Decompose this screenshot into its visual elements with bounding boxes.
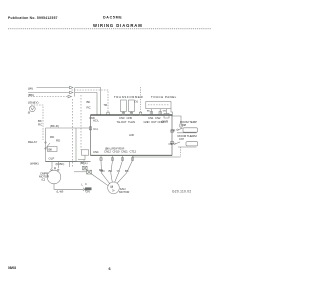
board top heavy edge	[91, 114, 173, 116]
room temp thermistor	[177, 129, 179, 131]
transformer leg connectors	[122, 112, 124, 115]
enclosure dashed vertical 2	[80, 95, 82, 150]
svg-text:CN10: CN10	[113, 150, 120, 154]
compressor ground wire	[54, 184, 84, 190]
svg-text:G20.110.02: G20.110.02	[172, 190, 191, 194]
svg-text:BK: BK	[147, 111, 150, 113]
svg-text:WIRING DIAGRAM: WIRING DIAGRAM	[93, 23, 143, 28]
relay box	[46, 128, 77, 162]
board bottom edge darker	[91, 154, 173, 156]
svg-text:MOTOR: MOTOR	[119, 190, 129, 194]
svg-text:RC: RC	[99, 168, 103, 172]
transformer symbol	[121, 100, 127, 112]
header dashed rule	[8, 28, 211, 30]
svg-text:(W): (W)	[28, 87, 33, 91]
svg-text:08/08: 08/08	[8, 266, 16, 270]
wire line 2	[28, 92, 70, 94]
svg-text:(L-W): (L-W)	[57, 189, 64, 193]
wire RC to compressor area	[74, 171, 87, 173]
sensor return wire dashed drop	[180, 147, 182, 157]
connector CN4 below board	[82, 150, 89, 155]
connector GN/B	[166, 109, 168, 114]
connector block link	[74, 88, 76, 97]
svg-text:OLP: OLP	[49, 157, 55, 161]
svg-text:(C): (C)	[42, 178, 46, 182]
RC junction connector 1	[83, 166, 88, 170]
connector terminal 3	[68, 95, 72, 98]
svg-text:CN4: CN4	[93, 150, 99, 154]
svg-text:Publication No. 5995412557: Publication No. 5995412557	[8, 16, 58, 20]
svg-text:RC: RC	[87, 106, 91, 110]
room thermistor 2	[174, 143, 176, 145]
svg-text:GN: GN	[86, 189, 90, 193]
plug ground wire dashed	[31, 105, 43, 140]
board bottom stub 3	[122, 155, 124, 160]
svg-text:CN12: CN12	[104, 150, 111, 154]
svg-text:GN/B: GN/B	[162, 119, 169, 123]
board bottom stub 1	[100, 155, 102, 160]
relay box bottom heavy	[46, 161, 91, 163]
board right edge connector 2	[171, 141, 174, 144]
svg-text:C: C	[85, 182, 87, 186]
svg-text:AIR: AIR	[129, 133, 134, 137]
svg-text:RD: RD	[56, 139, 60, 143]
svg-text:(BK-R): (BK-R)	[50, 124, 59, 128]
touch panel pin 2	[159, 109, 161, 115]
svg-text:OUT: OUT	[151, 120, 157, 124]
transformer legs	[122, 112, 124, 116]
svg-text:OR: OR	[169, 142, 173, 146]
svg-text:(R-BK): (R-BK)	[56, 162, 65, 166]
wire to board AC input	[75, 93, 97, 116]
connector terminal 1	[70, 86, 74, 89]
svg-text:L: L	[82, 183, 84, 187]
board bottom stub 4	[132, 155, 134, 160]
svg-text:6: 6	[109, 267, 111, 271]
connector at board left edge	[89, 127, 91, 130]
relay contact	[45, 142, 46, 143]
board bottom stub 2	[112, 155, 114, 160]
touch panel inner dashed	[148, 104, 169, 106]
connector at board top x140	[139, 112, 141, 115]
svg-text:BK: BK	[87, 100, 91, 104]
wire CN4 to RC	[78, 155, 85, 159]
touch panel box	[146, 102, 171, 109]
connector at board top x108	[107, 112, 109, 115]
svg-text:RC: RC	[38, 123, 42, 127]
compressor terminals	[51, 169, 53, 171]
svg-text:RD: RD	[50, 135, 54, 139]
svg-text:TH-OUT: TH-OUT	[117, 120, 127, 124]
connector terminal 2	[70, 91, 74, 94]
compressor circle	[47, 170, 61, 184]
svg-text:(W-BK): (W-BK)	[30, 162, 39, 166]
svg-text:BK: BK	[49, 148, 53, 152]
dashed stub	[140, 87, 142, 112]
compressor feed wires	[51, 162, 53, 169]
power plug symbol	[29, 106, 35, 112]
svg-text:OR: OR	[171, 128, 175, 132]
svg-text:DAC5ME: DAC5ME	[103, 16, 122, 20]
svg-text:RELAY: RELAY	[28, 140, 37, 144]
svg-text:TOUCH PANEL: TOUCH PANEL	[151, 95, 177, 99]
svg-text:CN8: CN8	[181, 123, 186, 127]
svg-text:GND: GND	[144, 120, 150, 124]
svg-text:CT12: CT12	[130, 150, 137, 154]
svg-text:CN11: CN11	[121, 150, 128, 154]
fan motor feed from RC	[92, 174, 109, 186]
connector CN8	[180, 124, 182, 127]
wire dashed to transformer	[72, 90, 109, 112]
svg-text:(GN&Y): (GN&Y)	[28, 101, 39, 105]
svg-text:R-1: R-1	[94, 127, 99, 131]
ground splice	[83, 188, 86, 191]
svg-text:BK: BK	[109, 169, 113, 173]
svg-text:TM: TM	[104, 103, 107, 107]
fan motor circle	[108, 182, 120, 194]
RC junction connector 2	[87, 170, 92, 174]
board right edge connector 1	[171, 130, 174, 133]
svg-text:TH-IN: TH-IN	[128, 120, 135, 124]
enclosure dashed vertical left	[72, 99, 74, 168]
touch panel right pin wire	[171, 109, 181, 124]
svg-text:GN: GN	[163, 111, 167, 113]
svg-text:AC-L: AC-L	[93, 118, 100, 122]
svg-text:(BK): (BK)	[28, 93, 34, 97]
svg-text:TRANSFORMER: TRANSFORMER	[114, 95, 143, 99]
svg-text:(Y): (Y)	[135, 100, 139, 104]
main control board box	[91, 115, 173, 155]
svg-text:3~: 3~	[112, 188, 115, 192]
svg-text:CN7: CN7	[179, 137, 184, 141]
touch panel pin 1	[150, 109, 152, 115]
relay coil box	[48, 147, 58, 152]
fan wires converge	[101, 160, 110, 184]
sensor return wire	[133, 155, 181, 157]
